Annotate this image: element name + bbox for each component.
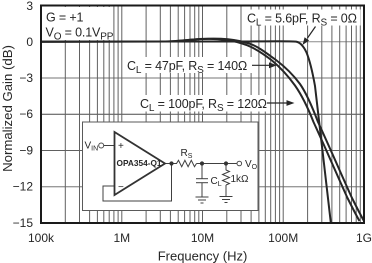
svg-text:0: 0 [26, 35, 33, 49]
svg-text:Frequency (Hz): Frequency (Hz) [158, 249, 248, 263]
svg-text:1M: 1M [113, 231, 130, 245]
svg-text:1kΩ: 1kΩ [231, 174, 250, 185]
svg-text:−12: −12 [13, 180, 34, 194]
svg-text:100k: 100k [28, 231, 55, 245]
svg-text:−6: −6 [19, 107, 33, 121]
svg-text:+: + [118, 141, 124, 152]
svg-text:Normalized Gain (dB): Normalized Gain (dB) [0, 45, 15, 172]
svg-text:−9: −9 [19, 144, 33, 158]
svg-text:100M: 100M [268, 231, 298, 245]
svg-text:1G: 1G [356, 231, 372, 245]
svg-text:−15: −15 [13, 216, 34, 230]
svg-text:−3: −3 [19, 71, 33, 85]
svg-text:G = +1: G = +1 [46, 10, 84, 24]
svg-text:−: − [118, 182, 124, 193]
svg-text:3: 3 [26, 0, 33, 13]
svg-text:OPA354-Q1: OPA354-Q1 [117, 158, 162, 168]
svg-text:10M: 10M [191, 231, 214, 245]
